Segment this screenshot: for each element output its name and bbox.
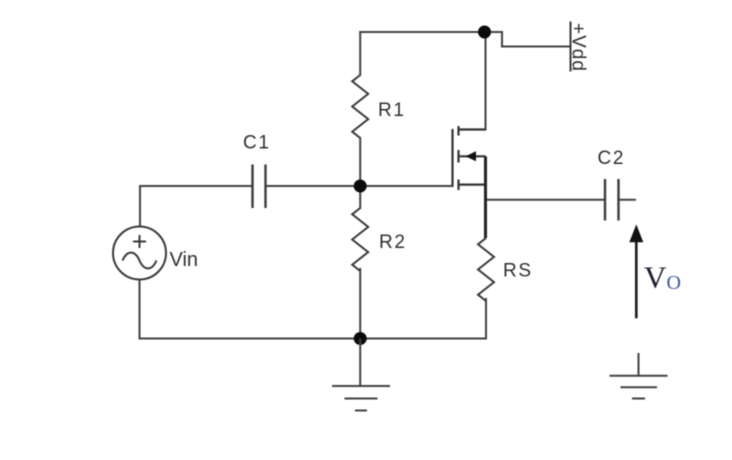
- wire output: [486, 199, 606, 201]
- wire top rail: [360, 31, 484, 33]
- wire C2 right stub: [619, 199, 636, 201]
- wire bottom rail: [140, 338, 487, 340]
- wire Vdd tap: [485, 32, 570, 47]
- node bottom junction: [354, 332, 367, 345]
- svg-text:+Vdd: +Vdd: [568, 23, 589, 72]
- wire input left: [140, 185, 253, 187]
- node gate junction: [354, 180, 367, 193]
- svg-text:RS: RS: [503, 261, 533, 282]
- svg-text:C2: C2: [598, 148, 626, 169]
- wire Vin bottom: [139, 280, 141, 339]
- wire R1 top: [359, 32, 361, 75]
- wire gate: [360, 185, 452, 187]
- wire R2 top: [359, 186, 361, 208]
- wire Vin top: [139, 186, 141, 227]
- wire RS bottom: [485, 299, 487, 339]
- svg-text:R1: R1: [378, 100, 406, 121]
- arrow Vo: [629, 224, 643, 318]
- wire drain: [485, 32, 487, 130]
- svg-text:R2: R2: [379, 232, 407, 253]
- source Vin: [113, 227, 166, 280]
- svg-text:V: V: [644, 260, 667, 295]
- wire R2 bottom: [359, 269, 361, 339]
- wire C1 to gate node: [266, 185, 361, 187]
- svg-text:O: O: [667, 272, 681, 294]
- transistor Q1 body arrow: [466, 151, 477, 161]
- ground center: [332, 339, 390, 411]
- svg-text:C1: C1: [243, 133, 271, 154]
- svg-text:Vin: Vin: [170, 249, 199, 271]
- transistor Q1: [453, 126, 486, 190]
- node top junction: [478, 26, 491, 39]
- wire R1 bottom: [359, 138, 361, 186]
- capacitor C2: [605, 179, 619, 221]
- capacitor C1: [253, 165, 266, 209]
- resistor RS: [478, 238, 494, 301]
- resistor R2: [352, 208, 368, 271]
- resistor R1: [352, 75, 368, 138]
- ground right: [610, 353, 668, 399]
- power +Vdd terminal: [570, 22, 572, 72]
- wire source vertical: [484, 156, 487, 238]
